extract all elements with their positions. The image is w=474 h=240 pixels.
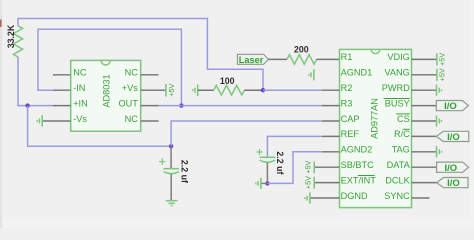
wire C1 node up and right to CAP pin <box>171 121 322 146</box>
flag I/O at DATA <box>437 162 469 174</box>
svg-text:+5V: +5V <box>438 53 447 66</box>
svg-text:OUT: OUT <box>118 98 138 108</box>
U2 overlines BUSY CS C INT <box>358 99 410 176</box>
supply +5V at VDIG <box>437 53 447 66</box>
svg-text:BUSY: BUSY <box>385 98 410 108</box>
supply +5V at EXT/INT <box>303 176 314 189</box>
svg-text:NC: NC <box>125 68 139 78</box>
U2 left pin labels <box>341 52 377 201</box>
resistor 200 <box>287 55 317 65</box>
svg-text:CS: CS <box>397 114 410 124</box>
svg-text:DATA: DATA <box>387 160 411 170</box>
svg-text:+Vs: +Vs <box>122 83 138 93</box>
junction at 100/R2 <box>261 88 265 92</box>
svg-text:EXT/INT: EXT/INT <box>341 175 377 185</box>
svg-text:R1: R1 <box>341 52 353 62</box>
svg-text:I/O: I/O <box>444 163 457 174</box>
svg-text:2.2 uf: 2.2 uf <box>180 160 190 183</box>
svg-text:NC: NC <box>125 114 139 124</box>
svg-text:NC: NC <box>73 68 87 78</box>
wire Laser to 200 <box>268 58 287 60</box>
wire top loop from 33.2K to R2 junction <box>18 19 263 91</box>
svg-text:AD8031: AD8031 <box>101 74 111 107</box>
svg-text:+5V: +5V <box>438 68 447 81</box>
svg-text:2.2 uf: 2.2 uf <box>275 151 285 174</box>
ground at CS <box>437 115 442 126</box>
svg-text:I/O: I/O <box>444 101 457 112</box>
net label Laser <box>237 54 268 65</box>
U2 right pin labels <box>382 52 411 201</box>
svg-text:CAP: CAP <box>341 114 360 124</box>
op-amp U1 AD8031 body <box>71 60 141 131</box>
svg-text:R3: R3 <box>341 98 353 108</box>
junction at C1 top <box>169 144 173 148</box>
svg-text:-IN: -IN <box>73 83 85 93</box>
svg-text:R2: R2 <box>341 83 353 93</box>
wire 200 to R1 <box>317 58 340 60</box>
wire +IN node down to C1 top <box>28 106 172 147</box>
U1 pin stubs left <box>42 75 70 121</box>
ground at TAG <box>437 146 442 157</box>
svg-text:+5V: +5V <box>303 176 312 189</box>
svg-text:I/O: I/O <box>447 178 460 189</box>
wire junction to R2 <box>263 89 322 91</box>
resistor 100 <box>198 85 263 95</box>
svg-text:TAG: TAG <box>392 145 410 155</box>
svg-text:R/C: R/C <box>394 129 410 139</box>
junction at C2 bottom <box>265 181 269 185</box>
supply +5V at U1 +Vs <box>166 83 176 96</box>
wire -IN feedback loop <box>38 29 181 105</box>
wire C2 bottom to AGND2 <box>267 152 322 184</box>
ground at U1 -Vs <box>37 115 42 126</box>
supply +5V at VANG <box>437 68 447 81</box>
U1 pin stubs right <box>141 75 166 121</box>
wire REF to C2 <box>267 136 322 157</box>
wire 33.2K bottom to +IN <box>18 57 53 106</box>
ground at AGND1 <box>309 69 314 80</box>
svg-text:AD977AN: AD977AN <box>369 98 379 139</box>
svg-text:VDIG: VDIG <box>387 52 409 62</box>
wire OUT to R3 <box>159 105 322 107</box>
capacitor C1 2.2uF <box>159 146 179 200</box>
capacitor C2 2.2uF <box>256 149 275 184</box>
svg-text:DCLK: DCLK <box>385 175 410 185</box>
svg-text:+IN: +IN <box>73 98 88 108</box>
ground below C1 <box>166 201 178 206</box>
flag I/O at BUSY <box>436 101 468 113</box>
flag I/O at R/C <box>436 131 469 143</box>
svg-text:33.2K: 33.2K <box>6 24 16 48</box>
svg-text:REF: REF <box>341 129 360 139</box>
flag I/O at DCLK <box>437 178 468 190</box>
junction at +IN node <box>25 103 29 107</box>
svg-text:200: 200 <box>294 45 309 55</box>
svg-text:PWRD: PWRD <box>382 83 410 93</box>
U2 right pin stubs <box>412 59 437 198</box>
junction at OUT <box>179 103 183 107</box>
svg-text:AGND2: AGND2 <box>341 145 373 155</box>
svg-text:DGND: DGND <box>341 191 368 201</box>
svg-text:-Vs: -Vs <box>73 114 87 124</box>
resistor 33.2K <box>13 26 22 57</box>
svg-text:100: 100 <box>220 76 235 86</box>
ground at C2 bottom <box>256 178 268 189</box>
svg-text:+5V: +5V <box>167 83 176 96</box>
U2 left pin stubs <box>310 90 340 198</box>
svg-text:I/O: I/O <box>447 132 460 143</box>
U1 pin labels <box>73 68 138 124</box>
supply +5V at SB/BTC <box>303 160 314 173</box>
ground at 100 left <box>193 85 198 97</box>
svg-text:+5V: +5V <box>303 160 312 173</box>
ADC U2 AD977AN body <box>340 49 412 207</box>
ground at PWRD <box>437 85 442 96</box>
svg-text:VANG: VANG <box>384 68 409 78</box>
svg-text:SYNC: SYNC <box>384 191 410 201</box>
svg-text:Laser: Laser <box>239 55 264 65</box>
svg-text:AGND1: AGND1 <box>341 68 373 78</box>
svg-text:SB/BTC: SB/BTC <box>341 160 375 170</box>
ground at DGND <box>305 193 310 204</box>
